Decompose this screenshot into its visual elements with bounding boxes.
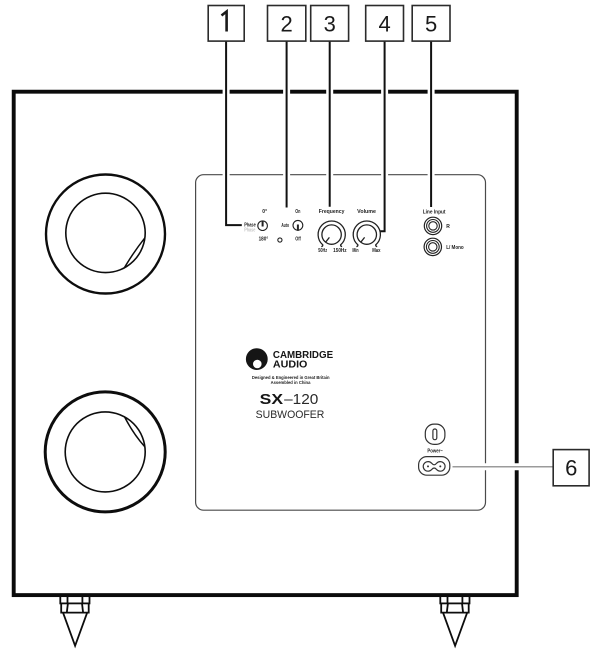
svg-text:Line Input: Line Input <box>423 209 446 215</box>
svg-text:L/ Mono: L/ Mono <box>446 245 464 251</box>
svg-text:180°: 180° <box>259 237 269 243</box>
svg-text:4: 4 <box>378 11 390 36</box>
foot right <box>440 595 469 646</box>
svg-text:Assembled in China: Assembled in China <box>271 380 311 386</box>
digit 1 <box>222 12 227 32</box>
svg-text:SX: SX <box>260 392 284 408</box>
svg-text:Auto: Auto <box>281 223 289 229</box>
power inlet <box>419 457 450 476</box>
driver top <box>46 175 165 294</box>
svg-text:6: 6 <box>565 456 577 481</box>
auto switch <box>278 209 303 242</box>
leader casings (white) <box>226 41 553 467</box>
svg-text:Frequency: Frequency <box>319 209 345 215</box>
svg-text:Designed & Engineered in Great: Designed & Engineered in Great Britain <box>252 375 330 381</box>
svg-text:150Hz: 150Hz <box>333 248 347 254</box>
svg-text:Volume: Volume <box>357 209 376 215</box>
svg-text:SUBWOOFER: SUBWOOFER <box>256 409 325 421</box>
phase switch <box>244 209 268 242</box>
panel <box>196 175 486 511</box>
svg-text:2: 2 <box>280 11 292 36</box>
svg-text:AUDIO: AUDIO <box>273 358 308 370</box>
line input <box>423 209 464 255</box>
svg-text:3: 3 <box>324 11 336 36</box>
model name <box>256 392 325 421</box>
svg-text:Phase: Phase <box>244 227 255 233</box>
cabinet <box>14 92 517 595</box>
foot left <box>60 595 89 646</box>
svg-text:0°: 0° <box>262 209 267 215</box>
driver bottom <box>45 392 165 512</box>
leader 2 <box>286 41 288 208</box>
svg-text:On: On <box>295 209 300 215</box>
leader 3 <box>329 41 331 207</box>
svg-text:5: 5 <box>425 11 437 36</box>
leader 5 <box>430 41 432 207</box>
power switch <box>425 424 445 455</box>
svg-text:50Hz: 50Hz <box>318 248 327 254</box>
volume knob <box>352 209 380 254</box>
svg-text:Min: Min <box>352 248 358 254</box>
leader 1 <box>226 41 242 225</box>
svg-text:Max: Max <box>372 248 380 254</box>
svg-text:Power~: Power~ <box>427 449 442 455</box>
svg-text:–120: –120 <box>284 392 318 408</box>
leader 4 <box>380 41 384 231</box>
frequency knob <box>318 209 347 254</box>
logo <box>246 348 333 386</box>
leader 6 <box>453 466 554 468</box>
callout boxes <box>208 6 589 486</box>
svg-text:R: R <box>446 224 450 230</box>
svg-text:Off: Off <box>295 237 301 243</box>
